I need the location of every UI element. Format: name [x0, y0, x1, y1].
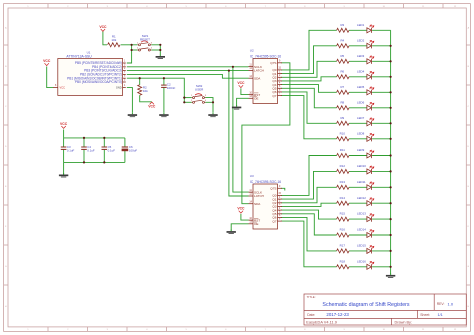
svg-text:SDA: SDA [254, 76, 261, 80]
svg-text:R18: R18 [340, 259, 346, 263]
svg-text:LATCH: LATCH [254, 194, 264, 198]
LED9 [367, 150, 374, 158]
wire SW2 pole1 left [184, 97, 191, 99]
resistor R15 [337, 217, 349, 221]
ground MCU [128, 113, 137, 117]
svg-text:VCC: VCC [60, 86, 66, 90]
resistor R11 [337, 154, 349, 158]
svg-text:LED12: LED12 [357, 196, 366, 200]
wire U2 Q0 to LED1 row [281, 30, 337, 70]
ground SW1 [156, 55, 165, 59]
wire U2 Q7S chain to U3 SDA [242, 63, 290, 204]
wire R12 to LED10 [349, 170, 367, 172]
svg-text:Q7: Q7 [272, 94, 276, 98]
svg-text:LED7: LED7 [357, 116, 365, 120]
power flag VCC MCU [43, 59, 51, 66]
junction LED bus [390, 186, 392, 188]
wire R9 to LED7 [349, 122, 367, 124]
wire U2 Q3 to LED4 row [281, 77, 337, 81]
resistor R17 [337, 249, 349, 253]
svg-text:VCC: VCC [43, 59, 51, 63]
wire PB2 to U2 SDA [127, 74, 249, 78]
wire cap bottom lead [103, 150, 105, 163]
svg-text:LED14: LED14 [357, 228, 366, 232]
svg-text:Q7S: Q7S [270, 61, 276, 65]
capacitor C2 [161, 85, 167, 87]
wire VCC to U3 RST [241, 214, 249, 220]
junction LED bus [390, 266, 392, 268]
wire R7 to LED5 [349, 91, 367, 93]
wire LED14 to bus [372, 234, 391, 236]
IC U3 74HC595 [253, 184, 278, 229]
resistor R5 [337, 59, 349, 63]
svg-text:SDA: SDA [254, 202, 261, 206]
wire cap top lead [63, 138, 65, 147]
svg-text:0.1uF: 0.1uF [87, 149, 95, 153]
LED6 [367, 102, 374, 110]
svg-text:VCC: VCC [99, 25, 107, 29]
svg-text:10k: 10k [111, 38, 116, 42]
svg-text:Date:: Date: [307, 313, 315, 317]
junction LED bus [390, 218, 392, 220]
LED4 [367, 71, 374, 79]
svg-text:R5: R5 [340, 54, 344, 58]
wire VCC to cap bank [63, 130, 65, 138]
svg-text:LED1: LED1 [357, 23, 365, 27]
wire R18 to LED16 [349, 266, 367, 268]
junction LED bus [390, 45, 392, 47]
svg-text:R12: R12 [340, 164, 346, 168]
svg-text:U3: U3 [250, 174, 254, 178]
wire SW2 pole1 right [205, 98, 213, 103]
junction SW2 left pole2 [183, 101, 185, 103]
power flag VCC R2 bottom [148, 102, 156, 109]
wire cap bank to ground [63, 162, 65, 174]
wire R6 to LED4 [349, 76, 367, 78]
wire SW1 right to ground [151, 45, 160, 55]
svg-text:0.1uF: 0.1uF [108, 149, 116, 153]
resistor R12 [337, 169, 349, 173]
junction LED bus [390, 122, 392, 124]
svg-text:LED16: LED16 [357, 259, 366, 263]
svg-text:LATCH: LATCH [254, 69, 264, 73]
wire U2 Q1 to LED2 row [281, 46, 337, 74]
junction LED bus [390, 91, 392, 93]
wire LED4 to bus [372, 76, 391, 78]
ground SW2 [208, 113, 217, 117]
wire cap top lead [124, 138, 126, 147]
LED13 [367, 214, 374, 222]
svg-text:VCC: VCC [148, 105, 156, 109]
resistor R14 [337, 201, 349, 205]
wire LED16 to bus [372, 266, 391, 268]
wire U3 Q1 to LED10 row [281, 171, 337, 199]
wire R10 to LED8 [349, 138, 367, 140]
capacitor C3 [61, 147, 67, 149]
svg-text:R14: R14 [340, 196, 346, 200]
wire U2 Q4 to LED5 row [281, 85, 337, 93]
wire U3 Q2 to LED11 row [281, 187, 337, 203]
wire SCLK bus to U3 [233, 67, 249, 192]
junction reset net / SW1 [131, 44, 133, 46]
wire SW1 pole2 right [151, 49, 160, 51]
wire LED6 to bus [372, 107, 391, 109]
junction LED bus [390, 250, 392, 252]
wire R4 to LED2 [349, 45, 367, 47]
wire cap top lead [103, 138, 105, 147]
wire LED1 to bus [372, 29, 391, 31]
wire PB4 to U2 SCLK [127, 66, 249, 68]
svg-text:RESET: RESET [140, 37, 150, 41]
svg-text:R17: R17 [340, 244, 346, 248]
wire SW2 right to ground [205, 102, 213, 112]
ground C2 [159, 113, 168, 117]
wire R1 to SW1 [121, 44, 138, 46]
junction cap bank bottom [83, 161, 85, 163]
svg-text:REV:: REV: [437, 302, 445, 306]
wire cap bottom lead [124, 150, 126, 163]
wire R13 to LED11 [349, 186, 367, 188]
wire R16 to LED14 [349, 234, 367, 236]
LED12 [367, 198, 374, 206]
junction SW2 right [212, 101, 214, 103]
svg-text:LED3: LED3 [357, 54, 365, 58]
svg-text:OE: OE [254, 97, 258, 101]
junction LED bus [390, 76, 392, 78]
wire R5 to LED3 [349, 60, 367, 62]
junction SW2 left pole1 [183, 97, 185, 99]
resistor R2 [138, 85, 142, 95]
wire cap bottom lead [63, 150, 65, 163]
svg-text:R6: R6 [340, 69, 344, 73]
svg-text:LED15: LED15 [357, 244, 366, 248]
junction LED bus [390, 60, 392, 62]
ground cap bank [59, 173, 68, 177]
ground U2 OE [232, 105, 241, 109]
svg-text:2017-12-23: 2017-12-23 [326, 312, 349, 317]
svg-text:IC_74HC595-SOC-16: IC_74HC595-SOC-16 [250, 180, 281, 184]
resistor R16 [337, 233, 349, 237]
capacitor C6 [122, 147, 129, 151]
svg-text:R10: R10 [340, 131, 346, 135]
wire LED5 to bus [372, 91, 391, 93]
LED16 [367, 261, 374, 269]
power flag VCC cap bank [60, 122, 68, 128]
wire PB3 to U2 LATCH [127, 70, 249, 72]
ground LED bus [386, 273, 395, 277]
wire LED15 to bus [372, 250, 391, 252]
svg-text:R16: R16 [340, 228, 346, 232]
wire R14 to LED12 [349, 202, 367, 204]
svg-text:TITLE:: TITLE: [307, 295, 316, 299]
LED5 [367, 87, 374, 95]
svg-text:LED6: LED6 [357, 100, 365, 104]
junction LED bus [390, 107, 392, 109]
junction SCLK bus [232, 66, 234, 68]
pushbutton SW1 [138, 41, 152, 51]
wire LED8 to bus [372, 138, 391, 140]
resistor R10 [337, 137, 349, 141]
power flag VCC U3 RST [237, 207, 245, 214]
wire LED9 to bus [372, 155, 391, 157]
resistor R4 [337, 44, 349, 48]
junction LED bus [390, 138, 392, 140]
IC U2 74HC595 [253, 59, 278, 104]
resistor R8 [337, 106, 349, 110]
LED11 [367, 182, 374, 190]
svg-text:100nF: 100nF [167, 86, 176, 90]
svg-text:1.0: 1.0 [448, 301, 454, 306]
svg-text:LED10: LED10 [357, 164, 366, 168]
svg-text:LED9: LED9 [357, 148, 365, 152]
junction LATCH bus [228, 70, 230, 72]
svg-text:ATTINY13A-SSU: ATTINY13A-SSU [66, 54, 92, 58]
svg-text:0.1uF: 0.1uF [67, 149, 75, 153]
wire U2 Q5 to LED6 row [281, 88, 337, 108]
capacitor C5 [102, 147, 108, 149]
wire R17 to LED15 [349, 250, 367, 252]
svg-text:R15: R15 [340, 212, 346, 216]
svg-text:Schematic diagram of Shift Reg: Schematic diagram of Shift Registers [322, 302, 409, 308]
junction SW1 right [159, 44, 161, 46]
wire R15 to LED13 [349, 218, 367, 220]
wire LED11 to bus [372, 186, 391, 188]
wire R8 to LED6 [349, 107, 367, 109]
wire U3 Q6 to LED15 row [281, 217, 337, 251]
power flag VCC R1 net [99, 25, 107, 32]
svg-text:R7: R7 [340, 85, 344, 89]
svg-text:LED8: LED8 [357, 131, 365, 135]
svg-text:LED11: LED11 [357, 180, 366, 184]
svg-text:GND: GND [116, 86, 122, 90]
wire LED2 to bus [372, 45, 391, 47]
svg-text:IC_74HC595-SOC-16: IC_74HC595-SOC-16 [250, 55, 281, 59]
wire PB1 to SW2 [127, 78, 185, 102]
wire cap bottom lead [83, 150, 85, 163]
junction LED bus [390, 234, 392, 236]
wire cap bank top bus [64, 137, 125, 139]
svg-text:100uF: 100uF [129, 149, 137, 153]
wire SW1 pole2 left [132, 49, 138, 51]
LED2 [367, 40, 374, 48]
svg-text:VCC: VCC [237, 81, 245, 85]
resistor R7 [337, 90, 349, 94]
wire cap bank bottom bus [64, 161, 125, 163]
svg-text:LED4: LED4 [357, 69, 365, 73]
wire LATCH bus to U3 [229, 71, 249, 196]
svg-text:PB0 (MOSI/AIN0/OC0A/PCINT0): PB0 (MOSI/AIN0/OC0A/PCINT0) [75, 80, 122, 84]
wire U2 Q2 to LED3 row [281, 61, 337, 77]
wire VCC to R1 [103, 31, 107, 45]
junction LED bus [390, 170, 392, 172]
power flag VCC U2 RST [237, 81, 245, 88]
wire VCC to MCU pin 8 [47, 67, 54, 88]
junction C2 top [163, 77, 165, 79]
junction cap bank top [103, 137, 105, 139]
wire LED13 to bus [372, 218, 391, 220]
wire LED10 to bus [372, 170, 391, 172]
resistor R1 [108, 43, 120, 47]
svg-text:R3: R3 [340, 23, 344, 27]
svg-text:LED13: LED13 [357, 212, 366, 216]
wire U3 Q3 to LED12 row [281, 203, 337, 206]
junction SW1 pole2 [131, 49, 133, 51]
svg-text:LED5: LED5 [357, 85, 365, 89]
svg-text:Q7: Q7 [272, 219, 276, 223]
svg-text:10k: 10k [143, 89, 148, 93]
svg-text:Drawn By:: Drawn By: [395, 320, 413, 324]
junction cap bank top [83, 137, 85, 139]
wire C2 top lead [163, 78, 165, 85]
wire C2 to ground [163, 88, 165, 113]
svg-text:R11: R11 [340, 148, 345, 152]
wire LED cathode bus [390, 30, 392, 274]
svg-text:Q7S: Q7S [270, 187, 276, 191]
svg-text:R13: R13 [340, 180, 346, 184]
wire R3 to LED1 [349, 29, 367, 31]
wire U3 OE to ground [231, 224, 248, 231]
svg-text:EasyEDA V4.11.9: EasyEDA V4.11.9 [306, 319, 337, 324]
LED3 [367, 56, 374, 64]
junction LED bus [390, 202, 392, 204]
wire PB1 junction to R2 [139, 78, 141, 85]
resistor R6 [337, 75, 349, 79]
wire SW2 pole2 left [184, 101, 191, 103]
LED10 [367, 166, 374, 174]
svg-text:Sheet:: Sheet: [420, 313, 430, 317]
wire VCC to U2 RST [241, 88, 249, 94]
svg-text:LED2: LED2 [357, 38, 365, 42]
junction LED bus [390, 154, 392, 156]
title block [304, 294, 466, 325]
resistor R13 [337, 185, 349, 189]
resistor R9 [337, 121, 349, 125]
LED15 [367, 246, 374, 254]
LED7 [367, 118, 374, 126]
wire cap top lead [83, 138, 85, 147]
svg-text:VCC: VCC [237, 207, 245, 211]
junction cap bank bottom [103, 161, 105, 163]
svg-text:USER: USER [195, 88, 204, 92]
svg-text:VCC: VCC [60, 122, 68, 126]
wire reset net to PB5 [127, 45, 132, 63]
wire U3 Q7S stub [281, 188, 285, 190]
capacitor C4 [81, 147, 87, 149]
wire U2 OE to ground [237, 98, 249, 106]
wire LED3 to bus [372, 60, 391, 62]
svg-text:U2: U2 [250, 49, 254, 53]
wire R2 bottom to VCC [140, 95, 152, 102]
pushbutton SW2 [192, 94, 206, 104]
LED1 [367, 25, 374, 33]
wire R11 to LED9 [349, 155, 367, 157]
resistor R3 [337, 28, 349, 32]
wire U2 Q7 to LED8 row [281, 96, 337, 139]
wire U3 Q4 to LED13 row [281, 210, 337, 219]
LED8 [367, 133, 374, 141]
wire U2 Q6 to LED7 row [281, 92, 337, 123]
wire LED7 to bus [372, 122, 391, 124]
wire U3 Q7 to LED16 row [281, 221, 337, 267]
wire U3 Q0 to LED9 row [281, 156, 337, 196]
junction R2 top [139, 77, 141, 79]
wire LED12 to bus [372, 202, 391, 204]
wire MCU GND to ground [127, 88, 133, 113]
LED14 [367, 230, 374, 238]
wire U3 Q5 to LED14 row [281, 214, 337, 235]
ground U3 OE [227, 230, 236, 234]
svg-text:R4: R4 [340, 38, 344, 42]
svg-text:R8: R8 [340, 100, 344, 104]
svg-text:OE: OE [254, 222, 258, 226]
svg-text:1/1: 1/1 [438, 313, 443, 317]
resistor R18 [337, 265, 349, 269]
junction SW1 right pole2 [159, 49, 161, 51]
MCU U1 ATTINY13A-SSU [58, 59, 123, 96]
svg-text:R9: R9 [340, 116, 344, 120]
